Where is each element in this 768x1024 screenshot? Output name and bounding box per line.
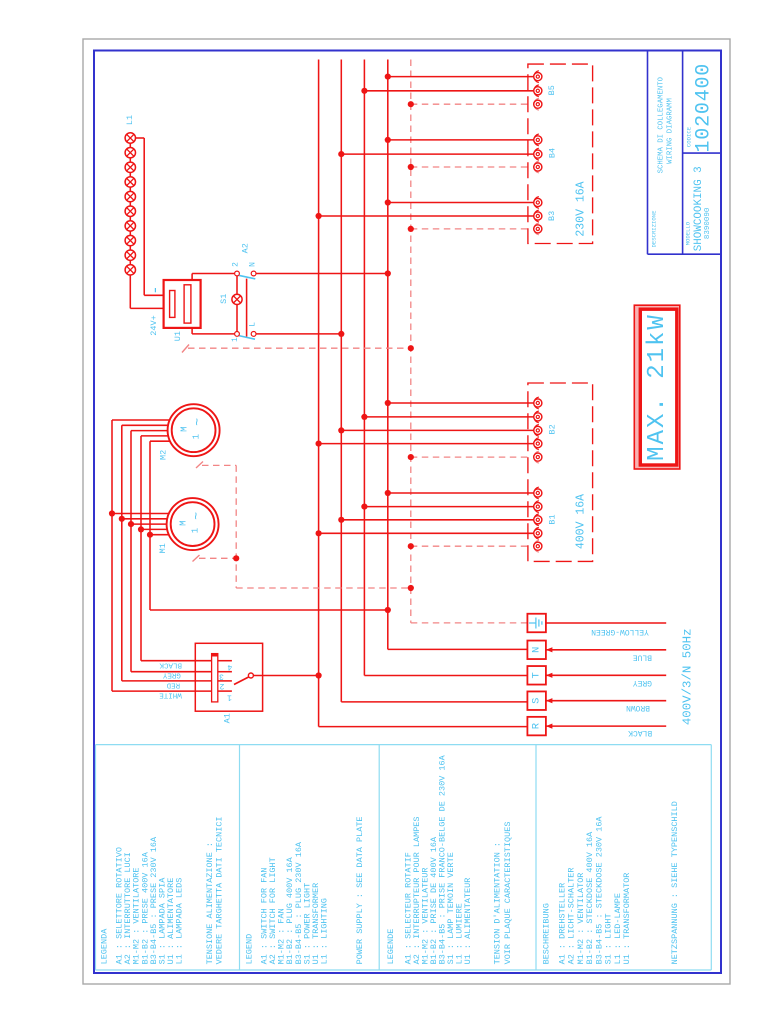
- svg-text:1020400: 1020400: [693, 63, 716, 153]
- svg-text:DESCRIZIONE: DESCRIZIONE: [650, 210, 657, 248]
- svg-text:R: R: [531, 722, 543, 729]
- svg-text:U1: U1: [173, 331, 183, 341]
- svg-text:U1 : ALIMENTATEUR: U1 : ALIMENTATEUR: [463, 878, 473, 965]
- svg-text:GREY: GREY: [633, 678, 652, 687]
- svg-text:M1: M1: [158, 543, 168, 553]
- svg-text:M: M: [178, 520, 188, 525]
- svg-text:S1: S1: [219, 294, 229, 304]
- svg-text:1: 1: [231, 337, 240, 342]
- svg-text:L1 : LIGHTING: L1 : LIGHTING: [320, 898, 330, 964]
- svg-text:LEGENDA: LEGENDA: [99, 928, 109, 965]
- svg-text:BESCHREIBUNG: BESCHREIBUNG: [542, 903, 552, 964]
- svg-text:WIRING DIAGRAMM: WIRING DIAGRAMM: [667, 98, 675, 164]
- svg-text:LEGEND: LEGEND: [244, 934, 254, 965]
- svg-text:POWER SUPPLY : SEE DATA PLATE: POWER SUPPLY : SEE DATA PLATE: [355, 816, 365, 964]
- svg-text:MAX. 21kW: MAX. 21kW: [644, 313, 671, 461]
- svg-text:NETZSPANNUNG : SIEHE TYPENSCHI: NETZSPANNUNG : SIEHE TYPENSCHILD: [670, 801, 680, 964]
- svg-text:S: S: [531, 698, 543, 704]
- svg-text:400V 16A: 400V 16A: [575, 494, 588, 549]
- svg-text:B2: B2: [547, 424, 557, 434]
- svg-text:B1: B1: [547, 514, 557, 524]
- svg-text:2: 2: [232, 262, 241, 267]
- svg-text:230V 16A: 230V 16A: [575, 181, 588, 236]
- svg-text:L1 : LAMPADA LEDS: L1 : LAMPADA LEDS: [175, 878, 185, 965]
- svg-text:A1: A1: [222, 713, 232, 723]
- svg-text:T: T: [531, 672, 543, 678]
- svg-text:L1: L1: [125, 115, 135, 125]
- svg-text:U1 : TRANSFORMATOR: U1 : TRANSFORMATOR: [622, 873, 632, 965]
- svg-text:B5: B5: [547, 85, 557, 95]
- svg-text:4: 4: [227, 662, 232, 671]
- svg-text:CODICE: CODICE: [686, 126, 693, 147]
- svg-text:1: 1: [191, 528, 201, 533]
- svg-text:3: 3: [219, 672, 224, 681]
- svg-text:N: N: [249, 262, 258, 267]
- svg-text:MODELLO: MODELLO: [685, 221, 692, 245]
- svg-text:L: L: [249, 322, 258, 327]
- svg-text:VOIR PLAQUE CARACTERISTIQUES: VOIR PLAQUE CARACTERISTIQUES: [503, 822, 513, 965]
- svg-text:WHITE: WHITE: [159, 690, 182, 698]
- svg-text:VEDERE TARGHETTA DATI TECNICI: VEDERE TARGHETTA DATI TECNICI: [215, 816, 225, 964]
- svg-text:~: ~: [189, 512, 204, 520]
- svg-text:A2: A2: [241, 243, 251, 253]
- svg-text:24V+: 24V+: [149, 315, 159, 335]
- svg-text:TENSION D'ALIMENTATION :: TENSION D'ALIMENTATION :: [493, 842, 503, 964]
- svg-text:SCHEMA DI COLLEGAMENTO: SCHEMA DI COLLEGAMENTO: [658, 76, 666, 173]
- svg-text:N: N: [531, 647, 543, 653]
- svg-text:400V/3/N 50Hz: 400V/3/N 50Hz: [681, 628, 695, 725]
- svg-text:1: 1: [227, 693, 232, 702]
- svg-text:YELLOW-GREEN: YELLOW-GREEN: [591, 627, 649, 636]
- svg-text:GREY: GREY: [162, 671, 181, 679]
- svg-text:2: 2: [219, 681, 224, 690]
- svg-text:1: 1: [192, 434, 202, 439]
- svg-text:BROWN: BROWN: [626, 703, 650, 712]
- svg-text:B3: B3: [547, 211, 557, 221]
- svg-text:BLUE: BLUE: [633, 652, 652, 661]
- svg-text:LEGENDE: LEGENDE: [386, 929, 396, 965]
- svg-text:M: M: [179, 426, 189, 431]
- svg-text:BLACK: BLACK: [159, 661, 182, 669]
- svg-text:B4: B4: [547, 148, 557, 158]
- svg-text:RED: RED: [166, 680, 180, 688]
- svg-text:~: ~: [190, 418, 205, 426]
- svg-text:M2: M2: [159, 450, 169, 460]
- svg-text:8390090: 8390090: [704, 207, 712, 239]
- svg-text:BLACK: BLACK: [628, 728, 652, 737]
